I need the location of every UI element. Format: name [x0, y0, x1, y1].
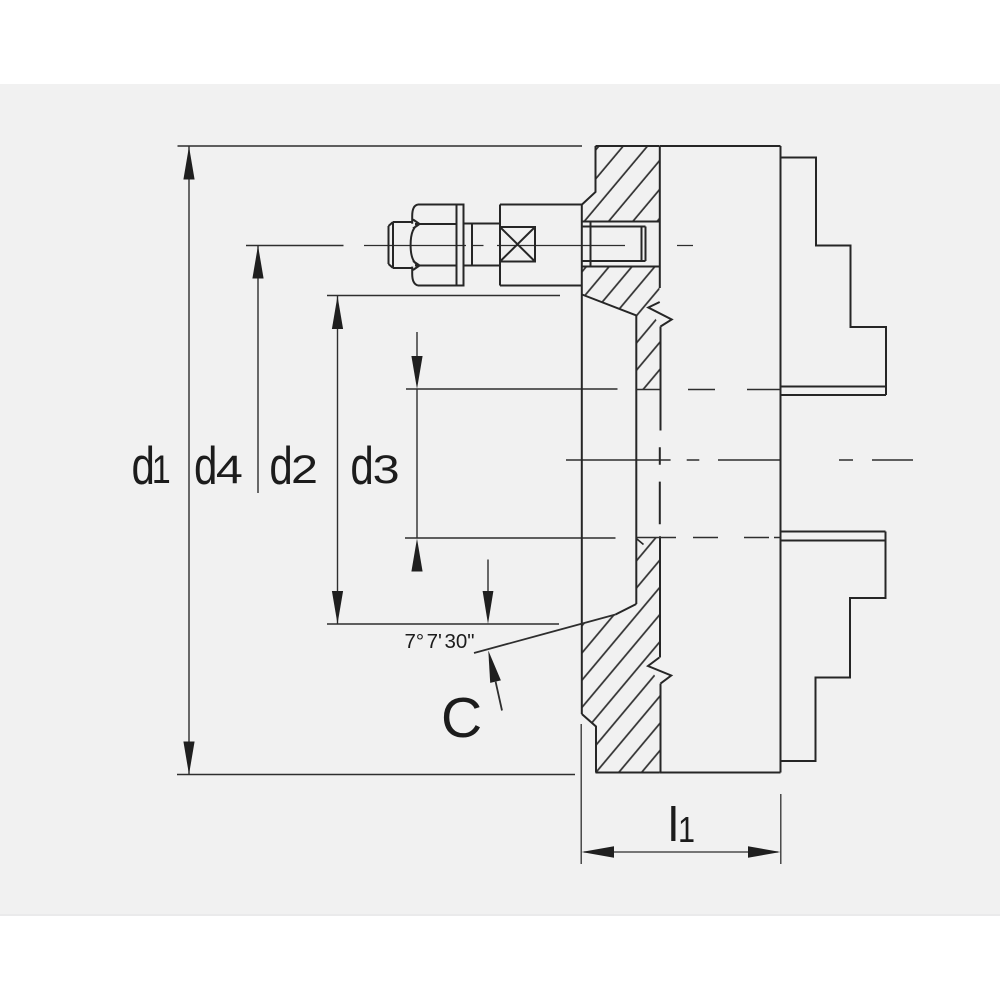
chuck body bottom edge [660, 772, 781, 774]
chuck body top edge [660, 145, 781, 147]
chuck body front face [780, 146, 782, 773]
flange hub [500, 205, 582, 286]
stud centerline [364, 245, 693, 247]
jaw upper steps [781, 158, 887, 396]
stud shank [464, 224, 501, 266]
dimension d2 extension top [327, 295, 560, 297]
joint line lower [660, 684, 662, 773]
svg-text:d: d [350, 437, 373, 496]
svg-text:d: d [269, 437, 292, 496]
dimension d2 line [337, 296, 339, 624]
svg-text:2: 2 [291, 448, 318, 492]
l1 left extension [581, 724, 781, 864]
arrow d2 bottom [332, 591, 343, 624]
arrow d3 top (outside, pointing down) [411, 356, 422, 389]
dimension d3 line upper tail [416, 332, 418, 357]
l1 arrow right [748, 846, 781, 857]
flange left face [581, 205, 583, 715]
dimension d1 extension bottom [177, 774, 575, 776]
arrow d4 [252, 246, 263, 279]
joint line middle [659, 327, 662, 658]
dimension d2 extension bottom [327, 623, 559, 625]
l1 dimension line [584, 851, 778, 853]
main centerline [566, 459, 913, 461]
flange upper-left profile [582, 146, 596, 205]
hatch flange band below hole [582, 267, 660, 390]
dimension d4 extension [246, 245, 344, 247]
dimension d3 line [416, 389, 418, 538]
nut M20 [411, 205, 457, 286]
flange bottom edge [596, 772, 660, 774]
arrow d1 top [183, 147, 194, 180]
threaded hole with stud end [582, 222, 660, 267]
taper surface upper [582, 295, 637, 316]
C gap arrow (down) [487, 560, 489, 596]
hidden bore line lower [636, 537, 780, 539]
dimension d1 extension top [178, 145, 583, 147]
break band lower (white) [648, 658, 671, 684]
svg-text:7°7'30": 7°7'30" [405, 630, 475, 653]
l1 right extension [780, 794, 782, 864]
svg-text:d: d [194, 437, 217, 496]
arrow d1 bottom [183, 742, 194, 775]
bore corner chamfer at d3 line [636, 539, 643, 545]
dimension d3 extension top [406, 388, 618, 390]
hatch flange upper band [582, 146, 660, 222]
stud square section (crossed) [500, 227, 535, 262]
break zigzag upper [648, 302, 671, 327]
dimension d4 line [257, 246, 259, 494]
taper bore wall [635, 316, 637, 605]
arrow d2 top [332, 296, 343, 329]
flange top edge [596, 145, 660, 147]
washer [457, 205, 464, 286]
arrow d3 bottom (outside, pointing up) [411, 539, 422, 572]
flange lower-left chamfer [582, 714, 596, 773]
svg-text:3: 3 [373, 448, 400, 492]
angle annotation line (taper extended) [474, 615, 616, 654]
l1 arrow left [582, 846, 615, 857]
flange/body joint line upper [659, 146, 661, 288]
stud thread end [389, 222, 413, 268]
C leader arrow (up to taper line) [496, 682, 502, 711]
svg-text:C: C [441, 686, 482, 750]
dimension d1 line [188, 147, 190, 775]
jaw lower steps [781, 532, 886, 762]
svg-text:1: 1 [678, 809, 695, 850]
break band upper (white) [648, 301, 671, 327]
hatch flange lower [582, 538, 660, 773]
hidden bore line upper [636, 390, 780, 538]
svg-text:4: 4 [216, 448, 243, 492]
break zigzag lower [648, 658, 671, 684]
svg-text:1: 1 [152, 448, 171, 492]
bore chamfer lower [616, 604, 637, 615]
dimension d3 extension bottom [405, 537, 616, 539]
